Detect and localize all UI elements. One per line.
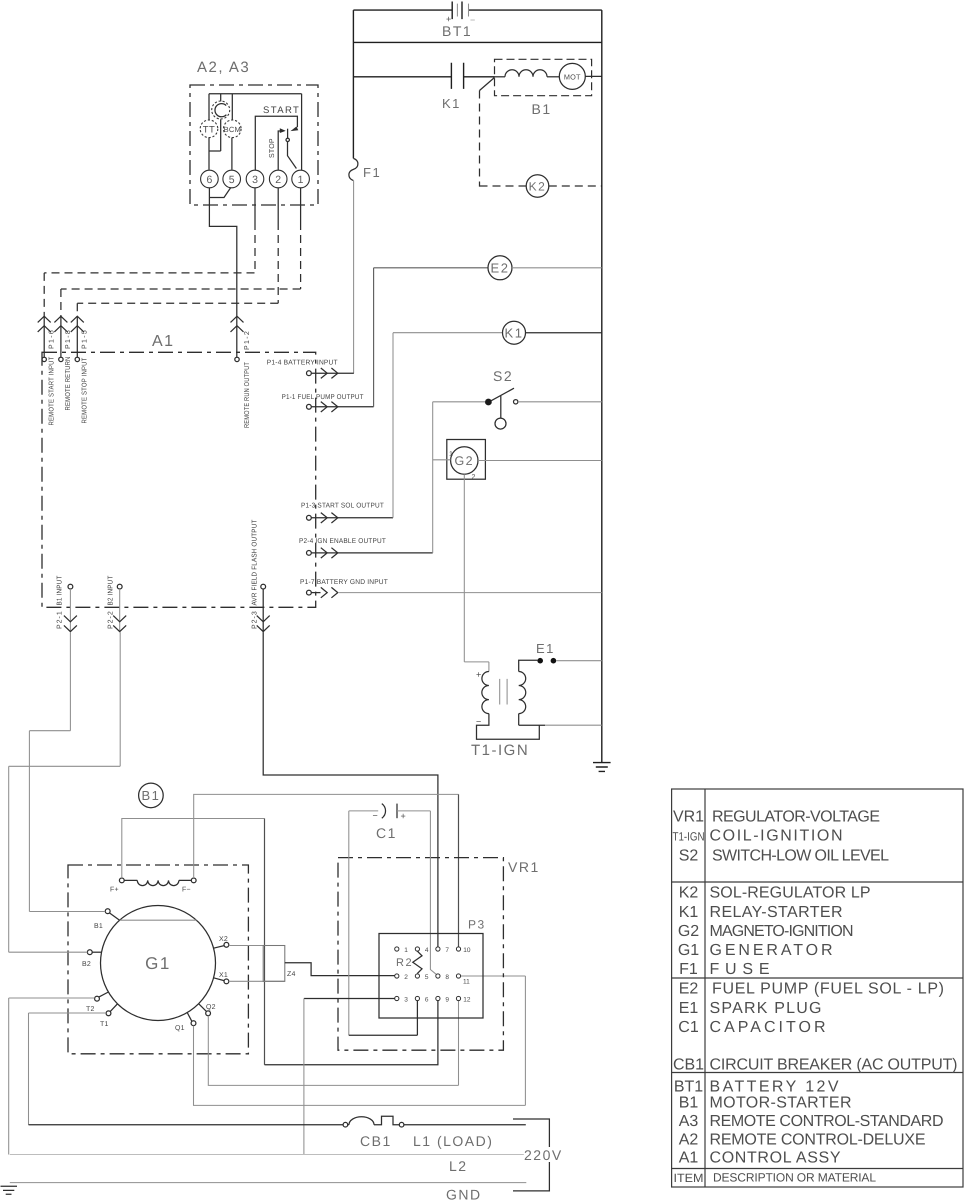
svg-text:5: 5 <box>425 974 429 981</box>
svg-text:REGULATOR-VOLTAGE: REGULATOR-VOLTAGE <box>712 809 880 826</box>
svg-text:Z4: Z4 <box>287 971 296 978</box>
svg-text:C1: C1 <box>678 1019 699 1036</box>
svg-text:P1-4 BATTERY INPUT: P1-4 BATTERY INPUT <box>267 360 338 367</box>
svg-text:B2 INPUT: B2 INPUT <box>108 575 115 605</box>
svg-text:MAGNETO-IGNITION: MAGNETO-IGNITION <box>710 923 854 940</box>
svg-text:K2: K2 <box>529 180 547 194</box>
svg-text:G2: G2 <box>454 454 474 468</box>
svg-text:G1: G1 <box>678 942 699 959</box>
svg-text:E1: E1 <box>536 641 555 656</box>
svg-text:3: 3 <box>404 997 408 1004</box>
svg-text:REMOTE STOP INPUT: REMOTE STOP INPUT <box>82 357 89 423</box>
svg-text:Q2: Q2 <box>206 1004 216 1011</box>
svg-text:+: + <box>401 811 406 821</box>
svg-text:SWITCH-LOW OIL LEVEL: SWITCH-LOW OIL LEVEL <box>712 848 889 865</box>
svg-text:2: 2 <box>275 174 281 186</box>
svg-text:P1-1 FUEL PUMP OUTPUT: P1-1 FUEL PUMP OUTPUT <box>282 394 364 401</box>
svg-text:L2: L2 <box>449 1158 468 1174</box>
svg-text:X1: X1 <box>219 972 228 979</box>
svg-text:P1-8: P1-8 <box>65 330 72 349</box>
svg-text:G2: G2 <box>678 923 699 940</box>
svg-text:BT1: BT1 <box>674 1079 703 1096</box>
svg-text:B1: B1 <box>532 101 552 117</box>
svg-text:F1: F1 <box>363 165 381 180</box>
svg-text:1: 1 <box>449 451 453 458</box>
svg-text:B1 INPUT: B1 INPUT <box>57 575 64 605</box>
svg-text:K2: K2 <box>679 885 699 902</box>
svg-text:12: 12 <box>463 997 471 1004</box>
svg-text:1: 1 <box>404 947 408 954</box>
svg-text:MOTOR-STARTER: MOTOR-STARTER <box>710 1095 852 1112</box>
svg-text:10: 10 <box>463 947 471 954</box>
svg-text:P1-6: P1-6 <box>49 330 56 349</box>
svg-text:VR1: VR1 <box>508 859 540 875</box>
svg-text:REMOTE RETURN: REMOTE RETURN <box>65 357 72 411</box>
svg-text:RELAY-STARTER: RELAY-STARTER <box>710 904 843 921</box>
svg-text:E2: E2 <box>491 261 510 276</box>
svg-text:CAPACITOR: CAPACITOR <box>710 1019 826 1036</box>
svg-text:T2: T2 <box>86 1006 95 1013</box>
svg-text:DESCRIPTION OR MATERIAL: DESCRIPTION OR MATERIAL <box>713 1171 876 1185</box>
svg-text:P1-5: P1-5 <box>82 330 89 349</box>
svg-text:CIRCUIT BREAKER (AC OUTPUT): CIRCUIT BREAKER (AC OUTPUT) <box>710 1057 958 1074</box>
svg-text:STOP: STOP <box>269 138 276 158</box>
svg-text:B2: B2 <box>82 961 91 968</box>
svg-text:REMOTE CONTROL-DELUXE: REMOTE CONTROL-DELUXE <box>710 1132 926 1149</box>
svg-text:2: 2 <box>404 974 408 981</box>
svg-text:B1: B1 <box>679 1095 699 1112</box>
svg-text:11: 11 <box>463 979 470 986</box>
svg-text:ITEM: ITEM <box>674 1171 704 1185</box>
svg-text:GENERATOR: GENERATOR <box>710 942 833 959</box>
svg-text:E1: E1 <box>679 1000 699 1017</box>
svg-text:3: 3 <box>252 174 258 186</box>
svg-text:START: START <box>263 105 300 116</box>
svg-text:B1: B1 <box>94 923 103 930</box>
svg-text:REMOTE START INPUT: REMOTE START INPUT <box>49 356 56 425</box>
svg-text:X2: X2 <box>219 936 228 943</box>
svg-text:C1: C1 <box>376 825 397 841</box>
svg-text:P2-1: P2-1 <box>57 611 64 629</box>
svg-text:K1: K1 <box>505 325 524 340</box>
svg-text:MOT: MOT <box>564 72 581 81</box>
svg-text:COIL-IGNITION: COIL-IGNITION <box>710 828 843 845</box>
svg-text:R2: R2 <box>396 957 413 969</box>
svg-text:VR1: VR1 <box>673 809 704 826</box>
svg-text:BT1: BT1 <box>442 23 472 39</box>
svg-text:Q1: Q1 <box>175 1025 185 1032</box>
svg-text:GND: GND <box>446 1187 482 1202</box>
svg-text:4: 4 <box>425 947 429 954</box>
svg-text:220V: 220V <box>524 1147 563 1163</box>
svg-text:A2, A3: A2, A3 <box>197 59 250 76</box>
svg-text:L1 (LOAD): L1 (LOAD) <box>413 1133 493 1149</box>
svg-text:6: 6 <box>206 174 212 186</box>
svg-text:A2: A2 <box>679 1132 699 1149</box>
svg-text:1: 1 <box>298 174 304 186</box>
svg-text:F−: F− <box>182 887 191 894</box>
svg-text:P2-2: P2-2 <box>108 611 115 629</box>
svg-text:B1: B1 <box>141 788 160 803</box>
svg-text:8: 8 <box>445 974 449 981</box>
svg-text:7: 7 <box>445 947 449 954</box>
svg-text:CB1: CB1 <box>360 1133 392 1149</box>
svg-text:P2-3: P2-3 <box>252 611 259 629</box>
svg-text:AVR FIELD FLASH OUTPUT: AVR FIELD FLASH OUTPUT <box>252 519 259 605</box>
svg-text:P1-2: P1-2 <box>244 331 251 350</box>
svg-text:A1: A1 <box>679 1150 699 1167</box>
svg-text:SPARK PLUG: SPARK PLUG <box>710 1000 822 1017</box>
svg-text:CB1: CB1 <box>673 1057 704 1074</box>
svg-text:T1: T1 <box>100 1021 109 1028</box>
svg-text:BATTERY 12V: BATTERY 12V <box>710 1079 839 1096</box>
svg-text:P1-3 START SOL OUTPUT: P1-3 START SOL OUTPUT <box>301 503 384 510</box>
svg-text:SOL-REGULATOR LP: SOL-REGULATOR LP <box>710 885 871 902</box>
svg-text:P1-7 BATTERY GND INPUT: P1-7 BATTERY GND INPUT <box>300 579 388 586</box>
svg-text:A1: A1 <box>152 333 175 350</box>
svg-text:6: 6 <box>425 997 429 1004</box>
svg-text:FUEL PUMP (FUEL SOL - LP): FUEL PUMP (FUEL SOL - LP) <box>712 981 944 998</box>
svg-text:REMOTE CONTROL-STANDARD: REMOTE CONTROL-STANDARD <box>710 1113 944 1130</box>
svg-text:K1: K1 <box>679 904 699 921</box>
svg-text:E2: E2 <box>679 981 699 998</box>
svg-text:P2-4 IGN ENABLE OUTPUT: P2-4 IGN ENABLE OUTPUT <box>299 538 386 545</box>
svg-text:A3: A3 <box>679 1113 699 1130</box>
svg-text:F1: F1 <box>679 961 698 978</box>
svg-text:9: 9 <box>445 997 449 1004</box>
svg-text:BCM: BCM <box>224 125 241 134</box>
svg-text:TT: TT <box>203 125 216 136</box>
svg-text:K1: K1 <box>442 96 461 111</box>
svg-text:+: + <box>476 670 481 680</box>
svg-text:G1: G1 <box>145 954 171 973</box>
svg-text:P3: P3 <box>468 918 486 932</box>
svg-text:REMOTE RUN OUTPUT: REMOTE RUN OUTPUT <box>244 362 251 428</box>
svg-text:F+: F+ <box>110 887 119 894</box>
svg-text:T1-IGN: T1-IGN <box>471 742 529 759</box>
svg-text:5: 5 <box>229 174 235 186</box>
svg-text:S2: S2 <box>493 368 513 384</box>
svg-text:CONTROL ASSY: CONTROL ASSY <box>710 1150 841 1167</box>
svg-text:2: 2 <box>472 474 476 481</box>
svg-text:S2: S2 <box>679 848 699 865</box>
svg-text:T1-IGN: T1-IGN <box>673 830 705 844</box>
svg-text:−: − <box>373 811 378 821</box>
